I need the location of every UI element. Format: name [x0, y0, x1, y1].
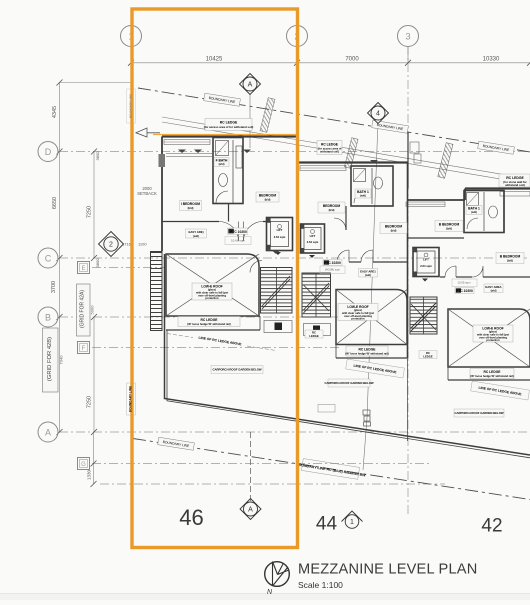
svg-text:RC LEDGE: RC LEDGE: [358, 348, 376, 352]
svg-text:A: A: [248, 507, 253, 514]
svg-text:SETBACK: SETBACK: [137, 191, 157, 196]
svg-text:RC LEDGE: RC LEDGE: [220, 121, 238, 125]
svg-text:(w/d): (w/d): [471, 211, 477, 214]
svg-text:10425: 10425: [206, 57, 223, 63]
svg-text:protection: protection: [351, 317, 364, 321]
svg-text:7250: 7250: [87, 206, 93, 218]
svg-text:3: 3: [405, 32, 410, 43]
svg-text:Scale 1:100: Scale 1:100: [298, 580, 343, 590]
svg-text:6650: 6650: [52, 197, 58, 209]
svg-text:B BEDROOM: B BEDROOM: [500, 255, 521, 259]
svg-text:10.66 sqm: 10.66 sqm: [231, 239, 246, 243]
svg-text:RC LEDGE: RC LEDGE: [200, 318, 218, 322]
svg-text:(GRID FOR 42B): (GRID FOR 42B): [47, 337, 53, 381]
svg-text:A: A: [45, 428, 51, 438]
svg-text:3800: 3800: [95, 151, 100, 161]
svg-text:(w/d): (w/d): [365, 274, 371, 277]
svg-text:RC LEDGE: RC LEDGE: [321, 143, 339, 147]
svg-text:46: 46: [179, 505, 203, 530]
svg-text:(b/d): (b/d): [329, 208, 335, 212]
svg-text:CARPORCH ROOF GARDEN BELOW: CARPORCH ROOF GARDEN BELOW: [324, 381, 373, 385]
svg-text:BOUNDARY LINE: BOUNDARY LINE: [129, 94, 133, 118]
svg-text:4: 4: [376, 111, 380, 118]
svg-text:E: E: [81, 266, 85, 272]
svg-text:5000: 5000: [90, 305, 95, 315]
svg-text:RC LEDGE: RC LEDGE: [483, 370, 501, 374]
svg-text:(W' loose hedge W' withstand r: (W' loose hedge W' withstand rail): [187, 322, 230, 326]
svg-text:2: 2: [109, 242, 113, 249]
svg-text:F BATH: F BATH: [216, 159, 228, 163]
svg-text:LEDGE: LEDGE: [309, 334, 318, 338]
svg-text:withstand soil): withstand soil): [319, 150, 339, 154]
svg-text:B BEDROOM: B BEDROOM: [439, 223, 460, 227]
svg-text:(W' loose hedge W' withstand r: (W' loose hedge W' withstand rail): [470, 374, 513, 378]
svg-text:G: G: [81, 462, 86, 468]
svg-text:BATH 1: BATH 1: [357, 190, 369, 194]
svg-text:I BEDROOM: I BEDROOM: [181, 202, 200, 206]
svg-text:3800: 3800: [95, 258, 100, 268]
svg-text:BATH 1: BATH 1: [468, 207, 480, 211]
svg-text:CARPORCH ROOF GARDEN BELOW: CARPORCH ROOF GARDEN BELOW: [212, 368, 261, 372]
svg-text:withstand soil): withstand soil): [504, 183, 525, 187]
svg-text:(w/d): (w/d): [193, 235, 199, 238]
svg-text:(b/d): (b/d): [446, 227, 452, 231]
svg-text:(w/d): (w/d): [360, 195, 366, 198]
svg-text:EASY ARE1: EASY ARE1: [360, 270, 376, 274]
svg-text:BOUNDARY LINE: BOUNDARY LINE: [129, 386, 133, 412]
svg-text:(GRID FOR 42A): (GRID FOR 42A): [80, 290, 86, 328]
svg-text:PTC 10200: PTC 10200: [230, 230, 247, 234]
svg-text:2.64 sqm: 2.64 sqm: [420, 264, 432, 268]
svg-text:D: D: [45, 147, 52, 157]
svg-text:(b/d): (b/d): [507, 259, 513, 263]
svg-text:LEDGE: LEDGE: [423, 354, 432, 358]
svg-text:(b/d): (b/d): [265, 198, 271, 202]
svg-text:4345: 4345: [52, 106, 58, 118]
svg-text:(b/d): (b/d): [391, 229, 397, 233]
svg-text:PTC 10200: PTC 10200: [456, 289, 473, 293]
svg-text:MEZZANINE LEVEL PLAN: MEZZANINE LEVEL PLAN: [298, 562, 477, 578]
svg-text:B: B: [45, 313, 51, 323]
svg-text:BEDROOM: BEDROOM: [385, 225, 402, 229]
svg-text:1100: 1100: [138, 242, 147, 247]
svg-text:BEDROOM: BEDROOM: [259, 194, 276, 198]
svg-text:7040: 7040: [59, 355, 64, 365]
svg-text:1: 1: [350, 519, 354, 526]
svg-text:(W' loose hedge W' withstand r: (W' loose hedge W' withstand rail): [345, 352, 388, 356]
svg-text:PTC 10200: PTC 10200: [324, 261, 341, 265]
svg-text:protection: protection: [486, 338, 499, 342]
svg-text:LIFT: LIFT: [423, 258, 429, 262]
svg-text:42: 42: [481, 516, 502, 537]
svg-text:3700: 3700: [51, 281, 57, 293]
svg-text:BEDROOM: BEDROOM: [323, 204, 340, 208]
svg-text:(w/d): (w/d): [219, 163, 225, 166]
svg-text:(b/d): (b/d): [188, 206, 194, 210]
svg-text:A: A: [248, 82, 253, 89]
svg-text:7250: 7250: [87, 396, 93, 408]
svg-text:LIFT: LIFT: [310, 234, 316, 238]
svg-text:F: F: [82, 346, 86, 352]
svg-text:(for access area of for withst: (for access area of for withstand soil): [204, 125, 254, 129]
svg-text:44: 44: [316, 514, 338, 535]
svg-text:(w/d): (w/d): [491, 290, 497, 293]
svg-text:C: C: [45, 254, 52, 264]
svg-text:LIFT: LIFT: [277, 228, 283, 232]
svg-text:EASY ARE): EASY ARE): [188, 230, 203, 234]
svg-text:protection: protection: [205, 296, 218, 300]
svg-text:2.64 sqm: 2.64 sqm: [307, 240, 319, 244]
svg-text:10.05 sqm: 10.05 sqm: [457, 281, 471, 285]
svg-text:7000: 7000: [345, 57, 359, 63]
svg-text:1330: 1330: [87, 469, 92, 480]
svg-text:2.64 sqm: 2.64 sqm: [274, 235, 286, 239]
svg-text:10330: 10330: [483, 57, 500, 63]
svg-text:CARPORCH ROOF GARDEN BELOW: CARPORCH ROOF GARDEN BELOW: [454, 411, 503, 415]
svg-text:WO(M) sqm: WO(M) sqm: [325, 268, 341, 272]
svg-text:EASY AREA: EASY AREA: [485, 285, 501, 289]
